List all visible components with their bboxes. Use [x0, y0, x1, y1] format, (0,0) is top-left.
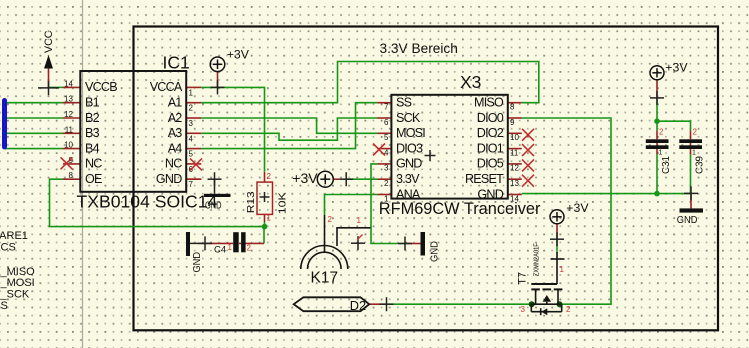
svg-text:SS: SS: [396, 96, 412, 110]
svg-text:D2: D2: [350, 298, 366, 313]
svg-text:B4: B4: [85, 141, 100, 155]
svg-text:13: 13: [64, 95, 73, 104]
svg-text:1: 1: [560, 265, 565, 274]
svg-text:3.3V: 3.3V: [396, 172, 420, 186]
svg-text:2: 2: [247, 244, 252, 253]
svg-text:SCK: SCK: [396, 111, 421, 125]
svg-text:A4: A4: [168, 141, 183, 155]
svg-text:ZXMN2A01F: ZXMN2A01F: [533, 243, 540, 276]
svg-text:1: 1: [384, 194, 389, 203]
svg-text:X3: X3: [460, 72, 481, 92]
svg-text:5: 5: [189, 150, 194, 159]
svg-text:TXB0104 SOIC14: TXB0104 SOIC14: [77, 191, 218, 211]
svg-text:_SCK: _SCK: [0, 289, 30, 301]
svg-text:GND: GND: [477, 187, 503, 201]
svg-text:VCCB: VCCB: [85, 80, 117, 94]
svg-text:T7: T7: [516, 272, 528, 285]
svg-text:13: 13: [510, 179, 519, 188]
svg-text:3.3V Bereich: 3.3V Bereich: [380, 41, 458, 56]
svg-text:7: 7: [189, 180, 194, 189]
svg-text:12: 12: [64, 110, 73, 119]
svg-text:GND: GND: [677, 214, 698, 226]
svg-text:+3V: +3V: [665, 60, 688, 74]
svg-text:10K: 10K: [277, 192, 289, 214]
svg-text:+3V: +3V: [566, 201, 589, 215]
svg-text:1: 1: [189, 88, 194, 97]
svg-text:R13: R13: [245, 191, 257, 213]
svg-text:NC: NC: [165, 157, 182, 171]
svg-text:IC1: IC1: [163, 53, 190, 73]
svg-text:2: 2: [693, 128, 698, 137]
svg-text:12: 12: [510, 164, 519, 173]
svg-text:8: 8: [510, 103, 515, 112]
svg-text:DIO3: DIO3: [396, 141, 423, 155]
svg-text:1: 1: [267, 214, 272, 223]
svg-text:3: 3: [384, 164, 389, 173]
svg-text:4: 4: [189, 134, 194, 143]
svg-text:B1: B1: [85, 96, 100, 110]
svg-text:2: 2: [659, 128, 664, 137]
svg-text:ANA: ANA: [396, 187, 421, 201]
svg-text:11: 11: [65, 125, 74, 134]
svg-text:B2: B2: [85, 111, 100, 125]
svg-text:11: 11: [510, 148, 519, 157]
svg-text:RESET: RESET: [465, 172, 504, 186]
svg-text:MISO: MISO: [474, 96, 504, 110]
svg-text:DIO5: DIO5: [477, 157, 504, 171]
svg-text:1: 1: [357, 216, 362, 225]
svg-text:GND: GND: [192, 252, 203, 273]
svg-text:VCCA: VCCA: [150, 80, 183, 94]
svg-text:A2: A2: [168, 111, 183, 125]
svg-text:C39: C39: [694, 156, 705, 174]
svg-text:GND: GND: [205, 200, 222, 211]
svg-text:DIO2: DIO2: [477, 126, 504, 140]
svg-text:2: 2: [267, 172, 272, 181]
svg-text:9: 9: [510, 118, 515, 127]
svg-text:7: 7: [384, 103, 389, 112]
svg-text:+3V: +3V: [292, 170, 318, 186]
svg-text:3: 3: [521, 305, 526, 314]
svg-text:10: 10: [510, 133, 519, 142]
svg-text:DIO1: DIO1: [477, 141, 504, 155]
svg-text:_MOSI: _MOSI: [0, 277, 35, 289]
svg-text:4: 4: [384, 148, 389, 157]
svg-text:2: 2: [328, 215, 333, 224]
svg-text:10: 10: [64, 141, 73, 150]
svg-text:B3: B3: [85, 126, 100, 140]
svg-text:OE: OE: [85, 172, 102, 186]
svg-text:C31: C31: [661, 156, 672, 174]
svg-text:A1: A1: [168, 96, 183, 110]
svg-text:1: 1: [228, 243, 233, 252]
svg-text:NC: NC: [85, 157, 102, 171]
svg-text:VCC: VCC: [43, 30, 55, 53]
svg-text:K17: K17: [311, 269, 339, 286]
svg-text:GND: GND: [156, 172, 182, 186]
svg-text:GND: GND: [430, 241, 441, 262]
svg-text:S: S: [1, 300, 8, 312]
svg-text:+3V: +3V: [227, 47, 250, 61]
svg-text:1: 1: [659, 150, 663, 157]
svg-text:8: 8: [69, 171, 74, 180]
svg-text:14: 14: [510, 194, 519, 203]
svg-text:1: 1: [692, 150, 696, 157]
svg-text:DIO0: DIO0: [477, 111, 504, 125]
svg-text:3: 3: [189, 119, 194, 128]
svg-text:SPARE1: SPARE1: [0, 230, 28, 242]
svg-text:2: 2: [189, 104, 194, 113]
svg-text:GND: GND: [396, 157, 422, 171]
svg-text:6: 6: [384, 118, 389, 127]
svg-text:A3: A3: [168, 126, 183, 140]
svg-text:14: 14: [64, 79, 73, 88]
svg-text:MOSI: MOSI: [396, 126, 425, 140]
svg-text:5: 5: [384, 133, 389, 142]
svg-text:C4: C4: [214, 244, 226, 255]
svg-text:CS: CS: [1, 242, 16, 254]
svg-text:2: 2: [566, 305, 571, 314]
svg-text:2: 2: [384, 179, 389, 188]
